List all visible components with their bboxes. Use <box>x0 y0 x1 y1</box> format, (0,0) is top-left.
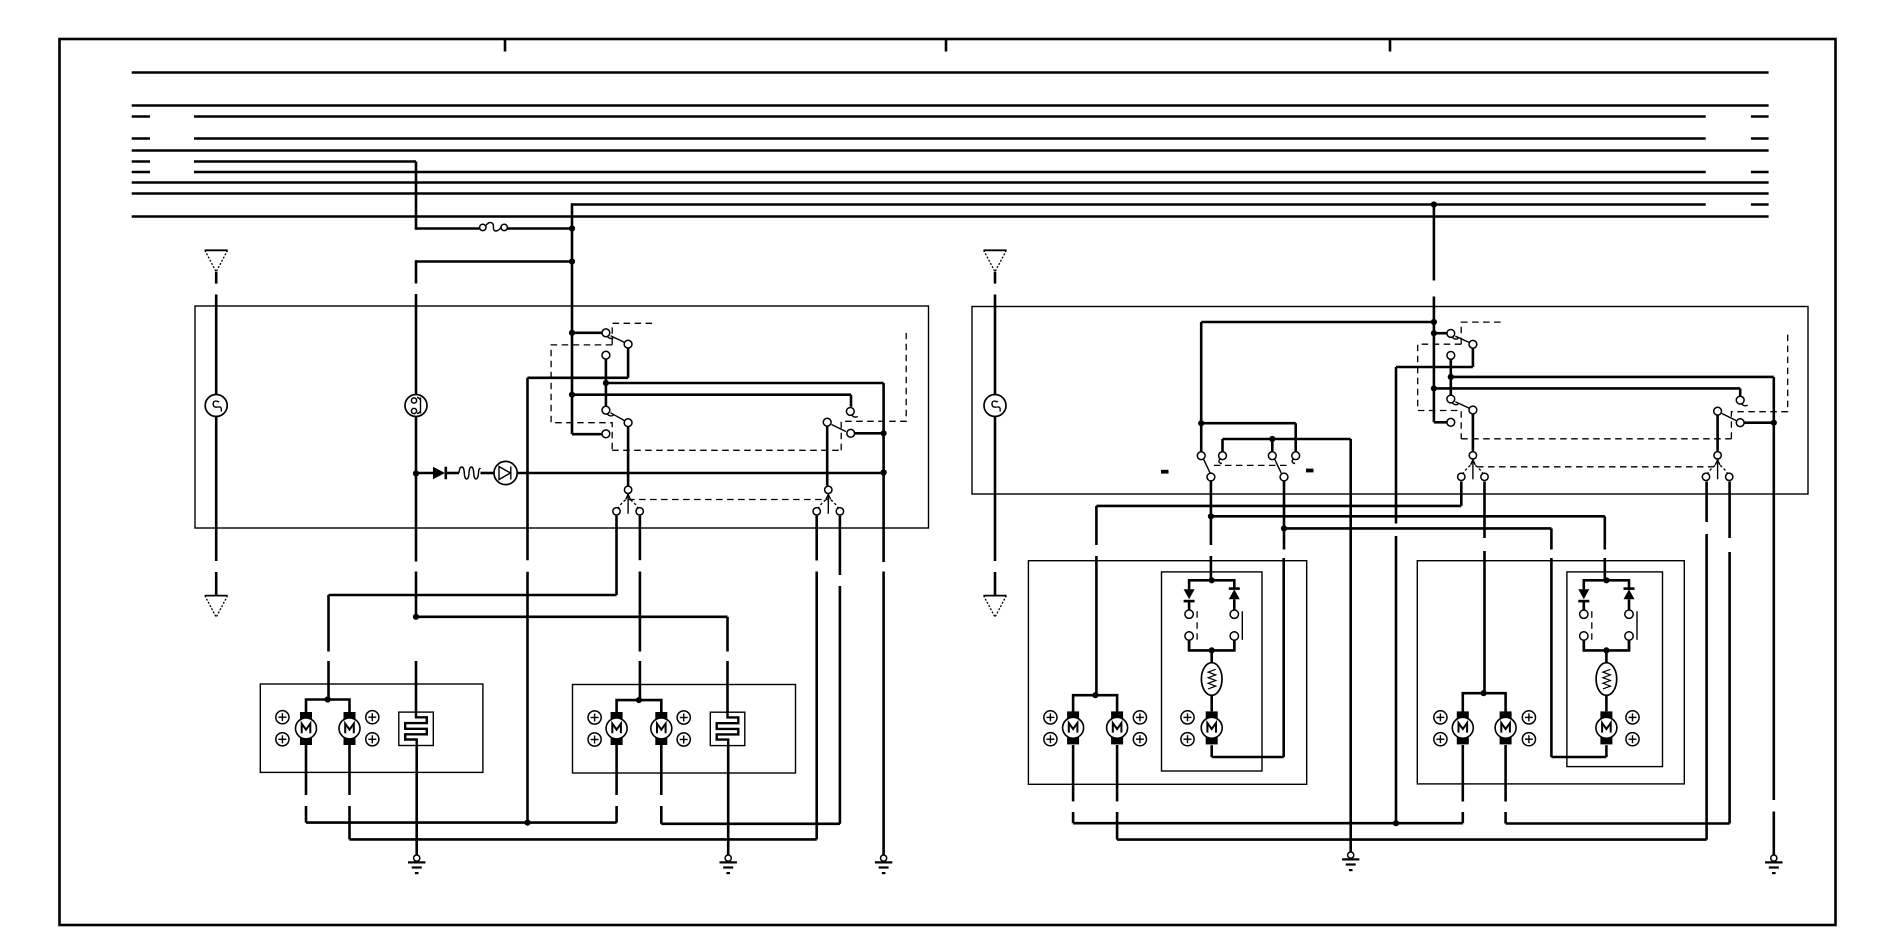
wire x884 to box exit <box>882 473 885 563</box>
wire x1284 below gap <box>1282 558 1285 757</box>
motor M5 (bridge A) <box>1201 711 1222 744</box>
switch SWA common <box>1207 473 1215 481</box>
wire CN2 right leg down <box>839 516 842 575</box>
wire x1296 down to SWB contact <box>1294 423 1297 451</box>
wire SWB a up <box>1271 439 1274 451</box>
switch SW1 common <box>624 340 632 348</box>
wire x1096 down <box>1095 506 1098 545</box>
terminal pin 6c <box>1522 711 1535 724</box>
wire x1201 down to SWA contact <box>1200 423 1203 451</box>
ground G2 <box>720 855 737 873</box>
terminal pin 3b <box>1181 733 1194 746</box>
bus wire y150 <box>132 149 1769 152</box>
wire SW1 b down to junction <box>605 359 608 406</box>
junction x572 y395 <box>569 392 575 398</box>
switch SW3 arm <box>832 425 846 432</box>
bus wire y138 main <box>194 137 1706 140</box>
wire CN4 right leg down <box>1728 482 1731 539</box>
wire x416 breaker down <box>415 417 418 474</box>
wire CN3 right leg below gap <box>1483 551 1486 693</box>
bus wire y116 right stub <box>1751 115 1769 118</box>
junction x606 y383 <box>603 380 609 386</box>
bus wire y161 left stub <box>132 160 150 163</box>
wire x1211 below gap to bridge A <box>1210 556 1213 580</box>
diode branch wire d <box>517 472 883 475</box>
bus wire y193 <box>132 192 1769 195</box>
wire window comp1 to ground <box>415 746 418 856</box>
motor M8 (bridge B) <box>1596 711 1617 744</box>
wire x328 below gap to motor bracket <box>327 661 330 700</box>
junction diode branch to x884 <box>881 469 887 475</box>
terminal pin 6a <box>1434 711 1447 724</box>
switch SWA contact b <box>1219 452 1227 460</box>
switch SWB contact b <box>1292 452 1300 460</box>
wire x1396 down <box>1395 367 1398 524</box>
switch SW2 common <box>624 419 632 427</box>
wire x727 down <box>726 617 729 652</box>
terminal pin 2a <box>588 711 601 724</box>
wire M2 below gap <box>348 806 351 839</box>
switch SWC arm <box>1455 336 1469 342</box>
diode branch wire a <box>416 472 433 475</box>
wire x216 to breaker <box>215 295 218 395</box>
wire x1774 down <box>1773 423 1776 800</box>
terminal pin 3a <box>1181 711 1194 724</box>
terminal pin 1b <box>276 733 289 746</box>
wire M1 below gap <box>305 806 308 823</box>
terminal pin 1c <box>366 711 379 724</box>
page connector triangle A (top, left) <box>205 250 228 271</box>
switch SWC contact a <box>1447 330 1455 338</box>
switch SW1 contact b <box>602 351 610 359</box>
bridge module box B <box>1567 572 1663 767</box>
wire x1774 below gap to ground <box>1773 812 1776 856</box>
switch SWE contact b <box>1736 419 1744 427</box>
wire x1096 below gap to bracketA <box>1095 556 1098 695</box>
wire M3 bottom <box>615 745 618 795</box>
junction x1774 y423 <box>1771 420 1777 426</box>
circuit breaker CB1 <box>205 395 227 417</box>
wire y617 to window comp2 <box>416 615 728 618</box>
wire CN1 left leg down <box>615 516 618 595</box>
wire CN4 left leg below gap <box>1705 534 1708 840</box>
switch SWB arm <box>1275 459 1282 473</box>
junction x1451 y377 <box>1448 374 1454 380</box>
dashed switch outline far right <box>1731 333 1787 439</box>
dashed linkage SWD to SWE <box>1461 438 1731 440</box>
wire x572 to SW2 contact b <box>571 395 574 435</box>
page connector triangle B (bottom, left) <box>205 596 228 618</box>
label mark open (right) <box>1306 469 1314 473</box>
wire y333 to switch1 contact <box>572 331 602 334</box>
diode bridge + thermistor module B <box>1578 580 1637 711</box>
wire CN4 left leg down <box>1705 482 1708 523</box>
connector switch CN4 <box>1702 452 1733 481</box>
junction bracket2 feed <box>636 697 642 703</box>
wire x884 y433-y473 <box>882 433 885 472</box>
junction x1272 y439 <box>1269 436 1275 442</box>
junction bridge A feed <box>1209 577 1215 583</box>
wire x416 down to box exit <box>415 474 418 562</box>
right control unit box (sunroof switch unit) <box>972 307 1808 495</box>
wire CN3 left leg down <box>1460 482 1463 506</box>
junction x572 y333 <box>569 330 575 336</box>
wire x1434 y388-y422 <box>1433 388 1436 422</box>
diode D1 <box>433 467 445 480</box>
junction bracket1 feed <box>325 696 331 702</box>
ground G3 <box>875 855 892 873</box>
circuit breaker CB2 <box>405 395 427 417</box>
triangle C stub <box>994 272 997 284</box>
wire y823 M1 to M3 <box>306 821 617 824</box>
switch SW2 arm <box>611 413 625 421</box>
wire x995 breaker down <box>994 417 997 562</box>
wire y395 to switch3 <box>572 393 851 396</box>
wire SW3 common down to connector <box>826 427 829 486</box>
bus wire y172 main <box>194 171 1706 174</box>
wire SWA b up <box>1221 439 1224 451</box>
wire bracket motors 1-2 <box>306 700 350 713</box>
wire SWD common down <box>1472 414 1475 451</box>
junction bridge B feed <box>1603 577 1609 583</box>
dashed switch outline right (body) <box>1418 344 1462 439</box>
switch SWC common <box>1469 340 1477 348</box>
terminal pin 4d <box>1133 733 1146 746</box>
connector switch CN1 <box>613 486 644 515</box>
wire SW2 common down to connector <box>627 427 630 486</box>
wire SWA common down <box>1210 481 1213 516</box>
junction bus y204 x1434 <box>1431 201 1437 207</box>
junction bracketB feed <box>1481 690 1487 696</box>
sunshade drive element W2 <box>710 712 745 745</box>
connector switch CN3 <box>1458 452 1489 481</box>
wire SW1 common down <box>627 349 630 378</box>
wire x884 down from y383 <box>882 383 885 433</box>
wire x1201 down <box>1200 322 1203 423</box>
wire bracket motors 3-4 <box>617 700 662 712</box>
wire x572 up to bus y204 <box>571 203 574 228</box>
wire x1284 down <box>1283 528 1286 549</box>
wire M10 bottom <box>1504 745 1507 802</box>
wire x328 down <box>327 595 330 652</box>
wire x1434 below connector gap <box>1433 297 1436 323</box>
switch SWE common <box>1714 407 1722 415</box>
switch SW1 contact a <box>602 329 610 337</box>
junction x1211 y516 <box>1208 513 1214 519</box>
wire CN1 right leg mid <box>639 572 642 652</box>
resistor R1 (coil) <box>459 467 481 479</box>
wire M5 bottom to y757 <box>1210 745 1213 757</box>
switch SWD contact a <box>1447 395 1455 403</box>
switch SWC contact b <box>1447 352 1455 360</box>
wire y528 to x1551 <box>1284 527 1551 530</box>
label mark close (left) <box>1161 470 1169 474</box>
switch SW3 contact a <box>846 408 854 416</box>
terminal pin 6d <box>1522 733 1535 746</box>
wire CN1 right leg to bracket2 <box>639 661 642 700</box>
wire M2 bottom <box>348 745 351 795</box>
diode branch wire b <box>446 472 459 475</box>
dashed linkage CN1 to CN2 <box>628 499 828 501</box>
wire M8 bottom to y757 <box>1605 745 1608 757</box>
wire M9 below gap <box>1462 812 1465 823</box>
wire x416 into window comp <box>415 661 418 712</box>
diode branch wire c <box>481 472 495 475</box>
wire x851 down to SW3 contact <box>850 395 853 407</box>
wire y377 long to right <box>1451 376 1774 379</box>
motor M9 <box>1452 711 1473 744</box>
switch SW2 contact b <box>602 430 610 438</box>
wire CN2 left leg below gap <box>815 572 818 840</box>
wire x1605 below gap to bridge B <box>1604 558 1607 580</box>
top border tick 1 <box>504 40 507 52</box>
junction fuse output x572 <box>569 225 575 231</box>
terminal pin 6b <box>1434 733 1447 746</box>
bus wire y161 main to fuse drop <box>194 160 416 163</box>
switch SWA contact a <box>1197 452 1205 460</box>
right motor assembly box B <box>1417 561 1684 784</box>
wire y840 M7 to CN4 left leg <box>1117 838 1707 841</box>
bus wire y138 left stub <box>132 137 150 140</box>
wire M3 below gap <box>615 806 618 823</box>
bus wire y182 <box>132 181 1769 184</box>
wire bracket motors 6-7 <box>1073 695 1117 712</box>
wire x1434 drop from bus <box>1433 205 1436 281</box>
bus wire y105 <box>132 104 1769 107</box>
wire SWB common down <box>1283 481 1286 528</box>
ground G4 <box>1342 852 1359 870</box>
left motor assembly box 2 <box>573 685 796 774</box>
junction x1434 y388 <box>1431 385 1437 391</box>
wire CN4 right leg below gap <box>1728 552 1731 824</box>
junction x884 y473 <box>881 469 887 475</box>
wire y422 to SWD b <box>1434 421 1447 424</box>
motor M6 <box>1063 711 1084 744</box>
wire x1211 down <box>1210 516 1213 545</box>
wire drop x416 from y161 to fuse <box>415 162 418 230</box>
motor M7 <box>1107 711 1128 744</box>
wire y367 to x1396 <box>1396 366 1473 369</box>
junction x1434 y333 <box>1431 330 1437 336</box>
top border tick 3 <box>1389 40 1392 52</box>
wire x572 y333-y395 <box>571 333 574 395</box>
junction x1434 y322 <box>1431 319 1437 325</box>
motor M1 <box>296 712 317 745</box>
wire y516 to bridge B feed <box>1211 515 1605 518</box>
wire CN2 left leg down <box>815 516 818 561</box>
junction x572 y261 <box>569 258 575 264</box>
switch SW3 contact b <box>847 429 855 437</box>
bus wire y116 main <box>194 115 1706 118</box>
wire SWE common down <box>1716 415 1719 451</box>
switch SWB common <box>1280 473 1288 481</box>
junction x527 y823 <box>524 820 530 826</box>
wire SWE b to x1774 <box>1744 421 1773 424</box>
dashed linkage SWA-SWB <box>1214 464 1288 466</box>
motor M2 <box>339 712 360 745</box>
wire x416 connector stub <box>415 260 418 283</box>
dashed switch outline right (top) <box>1461 322 1502 344</box>
switch SW3 common <box>823 418 831 426</box>
wire x1774 down to y423 <box>1773 377 1776 423</box>
wire y439 tie <box>1223 438 1351 441</box>
left motor assembly box 1 <box>260 684 483 772</box>
switch SWE arm <box>1722 414 1736 421</box>
bus wire y204 right stub <box>1751 203 1769 206</box>
sunshade drive element W1 <box>399 712 434 745</box>
junction x1201 y423 <box>1198 420 1204 426</box>
wire y322 to left <box>1201 321 1434 324</box>
wire M9 bottom <box>1462 745 1465 802</box>
right motor assembly box A <box>1028 561 1306 785</box>
switch SWD contact b <box>1447 418 1455 426</box>
junction x884 y433 <box>881 430 887 436</box>
terminal pin 4a <box>1044 711 1057 724</box>
wire x1740 down to SWE contact <box>1739 388 1742 396</box>
bus wire y172 left stub <box>132 171 150 174</box>
switch SW2 contact a <box>602 406 610 414</box>
wire SWC common down <box>1472 349 1475 363</box>
wire y824 M4 to CN2 right leg <box>661 822 840 825</box>
dashed switch outline left (body) <box>551 345 612 450</box>
top border tick 2 <box>945 40 948 52</box>
wire CN1 right leg down <box>639 516 642 561</box>
ground G1 <box>408 855 425 873</box>
bus wire y216 <box>132 215 1769 218</box>
connector switch CN2 <box>813 486 844 515</box>
wire x1551 below gap <box>1550 558 1553 757</box>
wire x727 below gap into comp <box>726 661 729 712</box>
wire x1605 down <box>1604 516 1607 549</box>
bus wire y72 <box>132 71 1769 74</box>
wire M7 bottom <box>1116 745 1119 801</box>
diode bridge + thermistor module A <box>1184 580 1243 711</box>
wire x216 to lower triangle <box>215 572 218 596</box>
wire M4 bottom <box>660 745 663 795</box>
switch SW1 arm <box>611 336 625 343</box>
terminal pin 5b <box>1626 733 1639 746</box>
junction x1396 y823 <box>1393 820 1399 826</box>
branch wire y261 to x416 <box>416 260 572 263</box>
dashed switch outline left (top) <box>612 323 656 345</box>
dashed switch outline right <box>841 333 906 450</box>
wire window comp2 to ground <box>727 746 730 856</box>
wire SWC b down <box>1450 360 1453 395</box>
switch SWD common <box>1469 406 1477 414</box>
left control unit box (roof/sunroof relay unit) <box>195 306 929 528</box>
wire SW3 b to x884 <box>855 432 884 435</box>
wire x1434 y333-y388 <box>1433 333 1436 388</box>
wire M6 below gap <box>1072 812 1075 823</box>
switch SWE contact a <box>1736 396 1744 404</box>
wire x1396 below gap <box>1395 536 1398 823</box>
motor M4 <box>651 712 672 745</box>
motor M3 <box>606 712 627 745</box>
bus wire y204 main (fused feed) <box>572 203 1706 206</box>
wire CN3 right leg down <box>1483 482 1486 539</box>
wire CN2 right leg below gap <box>839 586 842 824</box>
dashed linkage SW2 to SW3 <box>612 449 841 451</box>
fuse output wire <box>508 227 573 230</box>
page connector triangle C (top, right) <box>984 250 1007 271</box>
wire x995 to lower triangle <box>994 572 997 596</box>
wire y824 M10 to CN4 right leg <box>1506 822 1730 825</box>
fuse input wire <box>416 227 480 230</box>
wire x572 into control unit <box>571 262 574 333</box>
wire bracket motors 9-10 <box>1463 693 1506 712</box>
wire x527 below connector gap <box>526 572 529 823</box>
triangle A stub <box>215 272 218 284</box>
wire x1434 y322-y333 <box>1433 322 1436 333</box>
wire x416 below connector gap <box>415 294 418 395</box>
buzzer/diode indicator U1 <box>494 461 517 484</box>
wire x995 to breaker <box>994 295 997 395</box>
junction y617 from x416 <box>413 614 419 620</box>
terminal pin 4c <box>1133 711 1146 724</box>
terminal pin 2b <box>588 733 601 746</box>
terminal pin 5a <box>1626 711 1639 724</box>
bus wire y116 left stub <box>132 115 150 118</box>
wire x416 below box connector gap <box>415 572 418 617</box>
motor M10 <box>1495 711 1516 744</box>
wire y506 to x1096 <box>1096 505 1461 508</box>
wire y388 long to right <box>1434 387 1740 390</box>
wire x527 down from y378 <box>526 378 529 560</box>
wire M6 bottom <box>1072 745 1075 801</box>
bus wire y138 right stub <box>1751 137 1769 140</box>
wire M10 below gap <box>1504 812 1507 824</box>
bus wire y172 right stub <box>1751 171 1769 174</box>
terminal pin 1a <box>276 711 289 724</box>
wire y423 to x1296 <box>1201 422 1296 425</box>
wire x572 down to branch <box>571 229 574 262</box>
terminal pin 2d <box>677 733 690 746</box>
wire y757 to bridge B motor <box>1551 756 1606 759</box>
wire M1 bottom <box>305 745 308 795</box>
wire M7 below gap <box>1116 812 1119 840</box>
junction bracketA feed <box>1092 692 1098 698</box>
fuse F1 <box>480 223 508 231</box>
dashed linkage CN3 to CN4 <box>1477 466 1714 468</box>
wire y434 corner to SW2 b <box>572 433 602 436</box>
wire y378 common to x527 <box>528 376 629 379</box>
wire x1551 down <box>1550 528 1553 549</box>
junction x416 diode branch <box>413 470 419 476</box>
wire x1351 down to ground <box>1349 439 1352 853</box>
terminal pin 2c <box>677 711 690 724</box>
wire x216 breaker to box exit <box>215 417 218 562</box>
wire y383 to right <box>606 382 884 385</box>
wire M4 below gap <box>660 806 663 824</box>
circuit breaker CB3 <box>984 395 1006 417</box>
wire y823 M6 to M9 <box>1073 822 1463 825</box>
switch SWB contact a <box>1268 452 1276 460</box>
wire y839 M2 to CN2 left leg <box>350 838 817 841</box>
wire y333 to SWC contact <box>1434 332 1447 335</box>
terminal pin 1d <box>366 733 379 746</box>
bridge module box A <box>1162 572 1263 771</box>
junction x1284 y528 <box>1281 525 1287 531</box>
terminal pin 4b <box>1044 733 1057 746</box>
wire y757 from bridge A motor <box>1212 756 1284 759</box>
switch SWA arm <box>1204 459 1211 473</box>
page connector triangle D (bottom, right) <box>984 596 1007 618</box>
wire y595 to left <box>329 594 617 597</box>
switch SWD arm <box>1455 402 1469 408</box>
ground G5 <box>1765 855 1782 873</box>
wire x884 below box gap to ground <box>882 572 885 856</box>
